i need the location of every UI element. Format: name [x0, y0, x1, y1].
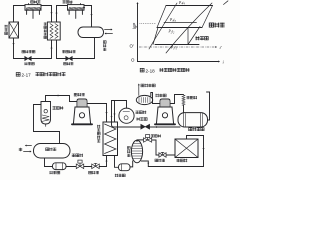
label condenser (leng-ning-qi): [46, 148, 57, 151]
arrow down on LP discharge: [50, 12, 52, 14]
cooling water in arrow and shui label: [19, 148, 22, 151]
arrow up into exchanger: [105, 160, 107, 162]
figure 2-17 cascade compression schematic: [5, 0, 113, 77]
label water precooler (shui-yu-leng-qi): [141, 84, 155, 87]
capillary coil (mao-xi-guan): [182, 95, 185, 106]
wire throttle 2 to evaporator: [166, 154, 175, 156]
wire cascade exchanger to HP compressor suction: [57, 6, 68, 23]
expansion vessel capsule (peng-zhang-rong-qi): [178, 113, 208, 127]
svg-text:P4t4: P4t4: [178, 1, 186, 6]
wire top manifold to oil separator 2: [112, 101, 127, 109]
check valve solid bowtie: [141, 124, 150, 129]
label throttle valve 2 (jie-liu-fa): [155, 159, 165, 162]
wire condenser outlet to filter 1: [45, 158, 53, 167]
label capillary (mao-xi-guan): [187, 96, 198, 99]
wire exchanger right pass top: [114, 101, 116, 123]
wire HP compressor discharge to condenser: [84, 6, 92, 28]
wire down to check valve line: [112, 101, 142, 128]
wire filter 1 to solenoid valve 1: [66, 166, 76, 168]
low cycle left edge: [153, 28, 158, 45]
dotted level line: [140, 23, 157, 25]
arrow down on evaporator outlet: [12, 43, 14, 45]
label filter 1 (guo-lv-qi): [50, 171, 60, 174]
label low-temp stage (di-wen-ji): [196, 36, 209, 40]
arrow left on HP suction wire: [57, 94, 59, 96]
svg-text:2-18: 2-18: [146, 68, 156, 73]
label oil separator 1 (you-fen-qi): [53, 106, 64, 109]
cascade condenser-evaporator box with coils: [47, 22, 60, 40]
arrow down right pass: [113, 114, 115, 116]
condenser horizontal vessel fig1: [78, 27, 104, 38]
wire precooler to LP suction: [151, 93, 160, 104]
horizontal axis i: [138, 61, 220, 63]
oil separator 1 vessel: [41, 102, 51, 125]
label HP compressor (gao-ya-ji): [74, 93, 85, 96]
wire evaporator top to right bus: [148, 136, 203, 167]
svg-text:i: i: [223, 60, 225, 65]
svg-text:P2t2: P2t2: [168, 30, 176, 35]
label condenser (leng-ning-qi) vertical fig1: [103, 41, 106, 51]
cascade condenser-evaporator column: [103, 122, 118, 156]
isobar P3t3 line: [164, 22, 197, 24]
isobar P2t2 top line of low-temp cycle: [157, 27, 202, 29]
svg-text:i′: i′: [220, 45, 223, 50]
throttle valve 1 bowtie: [25, 57, 31, 61]
water precooler ellipse: [136, 95, 152, 104]
low cycle throttle vertical: [187, 28, 189, 45]
solenoid valve 1: [76, 164, 84, 169]
arrow down on regenerator outlet: [147, 163, 149, 165]
throttle valve 1 bottom: [92, 164, 100, 169]
label evaporator (zheng-fa-qi): [177, 159, 188, 162]
wire regenerator top to solenoid 2: [137, 140, 143, 142]
evaporator box with X bottom figure: [175, 139, 198, 158]
wire solenoid 1 to throttle 1: [84, 166, 92, 168]
wire oil separator 1 top to HP suction: [46, 96, 78, 102]
svg-text:2-17: 2-17: [22, 73, 32, 78]
label high-temp stage (gao-wen-ji): [209, 23, 224, 28]
wire bottom left with throttle valve 1: [14, 40, 52, 59]
label filter 2 (guo-lv-qi): [115, 174, 125, 177]
regenerator oval vessel (hui-re-qi): [131, 140, 142, 162]
label solenoid valve 2 (dian-ci-fa): [151, 134, 161, 137]
label throttle valve 1 (jie-liu-fa): [89, 171, 99, 174]
saturated vapor curve: [166, 3, 212, 53]
arrow down on right bus: [202, 148, 204, 150]
wire regenerator outlet to bottom wire: [141, 161, 148, 167]
LP compressor machine: [160, 99, 170, 107]
label check valve (dan-xiang-fa): [137, 117, 148, 120]
saturated liquid curve: [149, 3, 177, 49]
figure 2-18 pressure-enthalpy chart: [130, 1, 229, 74]
arrow up on HP suction: [55, 12, 57, 14]
compressor HP cylinder: [68, 5, 85, 11]
label low-temp refrigerant (di-wen-ji): [25, 62, 35, 65]
wire evaporator outlet down: [13, 38, 15, 59]
top right corner tick: [224, 1, 229, 5]
caption figure 2-18: [140, 68, 144, 72]
oil separator 1 bottom nub: [45, 124, 47, 126]
label LP compressor (di-ya-ji): [156, 94, 167, 97]
arrow down on check valve drop: [111, 116, 113, 118]
label expansion vessel: [189, 127, 204, 131]
HP compressor machine: [77, 99, 87, 107]
wire LP discharge to capillary: [170, 95, 184, 104]
throttle valve 2: [159, 153, 166, 157]
low cycle compression edge: [188, 27, 200, 45]
label oil separator 2 (you-fen-qi): [136, 111, 147, 114]
high cycle left edge: [157, 6, 166, 28]
arrow down into exchanger left pass: [105, 112, 107, 114]
label cascade exchanger vertical (leng-ning-zheng-fa-qi): [97, 125, 100, 143]
wire LP compressor discharge to cascade exchanger: [41, 6, 52, 23]
wire oil separator 1 to condenser top: [34, 105, 60, 144]
compressor LP cylinder: [25, 5, 41, 11]
wire expansion vessel right up: [207, 92, 210, 120]
evaporator box with X: [9, 22, 19, 38]
arrow right on check valve wire: [156, 126, 158, 128]
isobar P1t1 bottom line of low-temp cycle: [155, 44, 199, 46]
solenoid valve 2: [144, 138, 152, 142]
vertical axis lgP: [137, 3, 139, 62]
cooling water arrows fig1: [105, 29, 112, 31]
svg-text:lgP: lgP: [132, 23, 137, 29]
label regenerator vertical (hui-re-qi): [127, 147, 130, 157]
label throttle valve 2 (jie-liu-fa 2): [62, 50, 75, 53]
wire HP discharge to cascade exchanger: [87, 104, 107, 123]
label evaporator (zheng-fa-qi) vertical: [5, 25, 8, 35]
oil separator 1 float circle: [44, 110, 47, 113]
label high-temp refrigerant (gao-wen-ji): [64, 62, 74, 65]
wire throttle 1 to exchanger bottom: [99, 156, 106, 167]
oil separator 1 coil: [42, 115, 49, 121]
wire bottom right with throttle valve 2: [57, 38, 95, 59]
water precooler vent pipe with arrow: [138, 85, 140, 96]
wire evaporator to LP compressor suction: [14, 6, 26, 23]
high cycle right compression edge: [202, 6, 213, 28]
caption figure 2-17: [16, 73, 20, 77]
filter 1 capsule: [53, 163, 67, 170]
wire filter 2 to regenerator bottom: [130, 161, 133, 167]
label solenoid valve 1 (dian-ci-fa): [72, 154, 83, 157]
wire solenoid 2 right and down to throttle 2: [152, 140, 159, 155]
svg-text:O′: O′: [130, 44, 134, 49]
oil separator 2 round vessel: [119, 108, 134, 123]
filter 2 capsule: [119, 164, 131, 171]
label throttle valve 1 (jie-liu-fa 1): [22, 50, 35, 53]
bottom cascade system schematic: [19, 84, 210, 178]
arrow on exchanger cold-side inlet: [50, 47, 52, 49]
cooling water out arrow: [26, 145, 32, 147]
label cascade condenser-evaporator vertical: [44, 23, 47, 39]
arrow down on condenser inlet: [90, 14, 92, 16]
wire exchanger right pass bottom to filter 2: [115, 156, 119, 168]
svg-text:P3t3: P3t3: [169, 18, 177, 23]
label high-pressure compressor (gao-ya-ji): [63, 0, 73, 3]
svg-text:O: O: [131, 58, 135, 63]
regenerator coil lines: [134, 143, 141, 145]
water-cooled condenser vessel: [34, 144, 71, 159]
label low-pressure compressor (di-ya-ji): [31, 0, 41, 3]
cascade exchanger zigzag coil: [105, 124, 117, 154]
isobar P4t4 top line of high-temp cycle: [166, 5, 213, 7]
throttle valve 2 bowtie: [66, 57, 72, 61]
dash-dot axis i-prime: [139, 46, 216, 48]
wire check valve to expansion vessel underside: [150, 126, 180, 128]
